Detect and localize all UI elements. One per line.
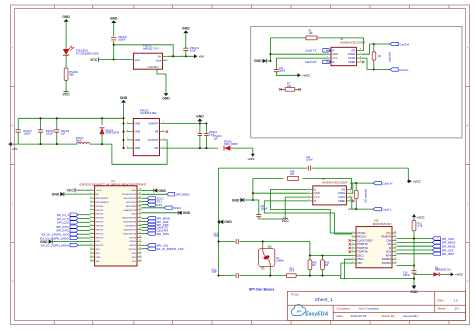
pins U2: [326, 49, 331, 51]
svg-text:GND: GND: [110, 16, 118, 20]
node: [217, 221, 219, 223]
ground flag U4 right: [142, 190, 154, 192]
svg-text:5: 5: [90, 204, 91, 206]
power VCC flag to regulator: [98, 57, 100, 61]
capacitor C16: [413, 266, 415, 271]
wire crystal bottom: [269, 266, 271, 275]
svg-text:RESET#: RESET#: [382, 236, 392, 239]
svg-text:1/1: 1/1: [455, 307, 460, 311]
svg-text:15: 15: [90, 244, 92, 246]
svg-text:11: 11: [394, 258, 396, 260]
power VCC flag: [283, 217, 288, 219]
power +VCC D3: [451, 272, 454, 276]
svg-text:GPIO25: GPIO25: [96, 222, 105, 224]
svg-text:+5V: +5V: [198, 55, 203, 59]
capacitor PSUC5: [56, 118, 58, 129]
svg-text:5: 5: [360, 60, 361, 62]
power +VCC R21: [413, 217, 415, 220]
ground PSU LED: [65, 22, 67, 24]
net flag EX_IO_25SPI1_CS0: [142, 248, 148, 250]
svg-text:4: 4: [90, 200, 91, 202]
net flag Can0 H: [390, 42, 398, 45]
svg-text:7: 7: [360, 53, 361, 55]
net flag Can0 L: [390, 68, 398, 71]
svg-text:4: 4: [308, 199, 309, 201]
net flag EX_IO_4: [70, 213, 78, 216]
svg-text:GPIO26: GPIO26: [96, 226, 105, 228]
wire U2 GND pin: [270, 53, 326, 55]
svg-text:3: 3: [90, 197, 91, 199]
svg-text:14: 14: [394, 246, 396, 248]
svg-text:1: 1: [308, 188, 309, 190]
svg-text:2: 2: [327, 53, 328, 55]
svg-text:17: 17: [394, 235, 396, 237]
svg-text:FB: FB: [155, 130, 159, 134]
net flag SPI_SCK: [397, 249, 433, 251]
svg-text:3: 3: [352, 239, 353, 241]
net flag TX1: [142, 200, 148, 202]
wire GND vertical: [269, 38, 271, 61]
title block frame: [287, 291, 465, 320]
svg-text:Drawn By:: Drawn By:: [382, 314, 396, 318]
svg-text:GND: GND: [120, 96, 128, 100]
net flag SPI_INT2: [70, 229, 78, 232]
easyeda logo: [291, 305, 306, 316]
wire vertical long: [218, 168, 220, 276]
ground flag CAN0: [263, 59, 267, 63]
wire VIN: [165, 147, 219, 149]
net flag SPI_CS1: [142, 244, 148, 246]
svg-text:13: 13: [394, 250, 396, 252]
svg-text:MBR0520LT1G: MBR0520LT1G: [435, 270, 451, 272]
pins U7: [308, 188, 313, 190]
svg-text:TXCAN: TXCAN: [357, 232, 366, 235]
svg-text:VSS: VSS: [357, 262, 362, 265]
capacitor C13 inline: [219, 275, 236, 277]
subcircuit box CAN0: [251, 26, 462, 137]
resistor R2 termination: [373, 44, 375, 52]
svg-text:8: 8: [163, 122, 164, 124]
wire GND rail: [18, 117, 123, 119]
wire VSS down: [341, 263, 352, 276]
svg-text:GND: GND: [131, 190, 136, 192]
capacitor PSUC6: [40, 118, 42, 129]
ground PSUC1: [185, 33, 187, 35]
svg-text:B: B: [467, 124, 469, 128]
wire U7 GND pin: [253, 192, 308, 194]
svg-text:+VCC: +VCC: [302, 74, 311, 78]
pins U4: [90, 189, 95, 191]
node: [252, 192, 254, 194]
svg-text:GPIO0: GPIO0: [129, 241, 136, 243]
ground XL1509 pins: [123, 103, 125, 105]
wire OUTPUT loop: [112, 140, 167, 164]
wire OSC2 line: [310, 255, 352, 257]
capacitor PSUC7: [17, 118, 19, 129]
power +5V arrow: [194, 54, 197, 58]
svg-text:RXD/GPIO16: RXD/GPIO16: [123, 233, 137, 235]
inductor PSUL1: [77, 142, 90, 144]
svg-text:1: 1: [352, 231, 353, 233]
svg-text:25: 25: [139, 240, 141, 242]
svg-text:SCL/GPIO22: SCL/GPIO22: [124, 198, 137, 200]
svg-text:TXD/GPIO17: TXD/GPIO17: [123, 229, 136, 231]
svg-text:GPIO34: GPIO34: [96, 206, 105, 208]
diode PSUD1: [224, 146, 230, 151]
net flag SPI_CS2: [70, 221, 78, 224]
svg-text:5: 5: [350, 199, 351, 201]
svg-text:+12V: +12V: [247, 157, 254, 161]
svg-text:OUTPUT: OUTPUT: [148, 138, 159, 142]
svg-text:GND: GND: [314, 191, 320, 195]
resistor R18: [253, 178, 284, 180]
svg-text:3: 3: [127, 122, 128, 124]
diode D3 MBR0520: [414, 273, 433, 275]
svg-text:GND: GND: [96, 241, 101, 243]
pin stubs U1: [128, 59, 133, 61]
ground flag U4 right: [142, 212, 178, 214]
svg-text:TITLE:: TITLE:: [290, 292, 299, 296]
svg-text:21: 21: [139, 255, 141, 257]
svg-text:D: D: [467, 280, 469, 284]
svg-text:35: 35: [139, 200, 141, 202]
capacitor C12: [276, 58, 326, 69]
svg-text:22pF: 22pF: [214, 235, 220, 238]
svg-text:GND: GND: [162, 97, 170, 101]
svg-text:CANL: CANL: [348, 56, 356, 60]
node: [407, 180, 409, 182]
svg-text:31: 31: [139, 216, 141, 218]
svg-text:GPIO32: GPIO32: [96, 214, 105, 216]
svg-text:29: 29: [139, 224, 141, 226]
svg-text:CMD: CMD: [96, 257, 101, 259]
node: [113, 44, 115, 46]
svg-text:GND: GND: [332, 52, 338, 56]
svg-text:6: 6: [90, 208, 91, 210]
svg-text:MCP2515-ISO: MCP2515-ISO: [373, 222, 393, 226]
resistor R21: [412, 221, 416, 231]
svg-text:16MHz: 16MHz: [276, 260, 284, 263]
capacitor PSUC4: [199, 123, 201, 133]
svg-text:7: 7: [350, 192, 351, 194]
svg-text:AMS1117-5.0: AMS1117-5.0: [143, 46, 159, 50]
svg-text:1: 1: [163, 146, 164, 148]
svg-text:7: 7: [90, 212, 91, 214]
svg-text:EX_IO_25SPI1_CS0: EX_IO_25SPI1_CS0: [157, 247, 184, 251]
svg-text:13: 13: [90, 236, 92, 238]
svg-text:Can0 RX: Can0 RX: [305, 60, 317, 64]
svg-text:ON/OFF: ON/OFF: [148, 121, 158, 125]
net flag SCL1: [142, 197, 148, 199]
regulator PSUU1 AMS1117-5.0: [133, 53, 162, 69]
node: [413, 278, 415, 280]
svg-text:2: 2: [352, 235, 353, 237]
transceiver U2 SN65HVD230DR: [331, 47, 356, 65]
svg-text:7: 7: [352, 254, 353, 256]
wire RX1BF to C16: [397, 265, 415, 267]
svg-text:GND: GND: [135, 138, 141, 142]
svg-text:10: 10: [394, 261, 396, 263]
wire CANH up: [361, 44, 369, 54]
svg-text:SCK: SCK: [386, 251, 391, 254]
net flag EX_IO_2/SPI1_MOSI: [70, 243, 78, 246]
svg-text:D: D: [332, 48, 334, 52]
net flag SPI_INT0: [397, 253, 433, 255]
wire VCC pin: [285, 197, 308, 218]
net flag EX_IO_14SPI1_SCK: [70, 233, 78, 236]
power +VCC flag: [298, 73, 301, 77]
resistor R1: [270, 37, 305, 39]
svg-text:61.9: 61.9: [290, 271, 295, 273]
svg-text:SPI_INT0: SPI_INT0: [442, 252, 455, 256]
svg-text:FC-2012HRK-620D: FC-2012HRK-620D: [76, 51, 99, 55]
svg-text:15: 15: [394, 243, 396, 245]
no-connect TX1RTS: [349, 247, 352, 250]
svg-text:Vin: Vin: [157, 54, 161, 58]
node: [309, 254, 311, 256]
svg-text:6: 6: [127, 146, 128, 148]
no-connect TX2RTS: [349, 250, 352, 253]
wire ON/OFF to GND: [165, 122, 207, 124]
svg-text:(120 optional): (120 optional): [365, 189, 368, 203]
net flag Can2 L: [373, 207, 381, 210]
net flag RX1: [142, 204, 148, 206]
transceiver U7 SN65HVD230DR: [313, 186, 347, 205]
wire: [65, 80, 67, 91]
svg-text:GPIO36/SVP: GPIO36/SVP: [96, 198, 109, 200]
svg-text:16: 16: [394, 239, 396, 241]
net flag SPI_SCK: [142, 221, 148, 223]
svg-text:TX0RTS#: TX0RTS#: [357, 243, 368, 246]
node: [185, 55, 187, 57]
svg-text:OSC1: OSC1: [357, 258, 364, 261]
svg-text:Sheet_1: Sheet_1: [315, 297, 333, 303]
svg-text:Date:: Date:: [337, 314, 344, 318]
svg-text:OSC2: OSC2: [357, 254, 364, 257]
svg-text:1uF: 1uF: [214, 138, 219, 141]
power +VCC flag: [408, 179, 411, 183]
svg-text:17: 17: [90, 252, 92, 254]
crystal X2 16MHz: [259, 249, 275, 267]
svg-text:8: 8: [350, 188, 351, 190]
svg-text:2021-05-06: 2021-05-06: [351, 314, 367, 318]
wire +5V rail: [8, 143, 77, 145]
svg-text:9: 9: [352, 261, 353, 263]
resistor R22: [287, 274, 297, 278]
svg-text:REV:: REV:: [438, 298, 445, 302]
no-connect VREF: [362, 61, 365, 64]
svg-text:GND: GND: [224, 220, 232, 224]
svg-text:SN65HVD230DR: SN65HVD230DR: [322, 180, 348, 184]
svg-text:1: 1: [90, 189, 91, 191]
svg-text:10: 10: [90, 224, 92, 226]
svg-text:10K: 10K: [309, 32, 314, 35]
svg-text:22: 22: [139, 252, 141, 254]
wire GND branch: [252, 179, 254, 201]
svg-text:ESP32D DEVKITC V4 38PINS NEW F: ESP32D DEVKITC V4 38PINS NEW FOOTPRINT: [79, 182, 146, 186]
svg-text:GND: GND: [254, 59, 262, 63]
svg-text:SDA1: SDA1: [173, 206, 181, 210]
capacitor C8: [253, 200, 259, 214]
svg-text:18: 18: [394, 231, 396, 233]
svg-text:Vout: Vout: [156, 58, 162, 62]
svg-text:SI: SI: [389, 247, 392, 250]
svg-text:EX_IO_2/SPI1_MOSI: EX_IO_2/SPI1_MOSI: [41, 243, 69, 247]
svg-text:GPIO13: GPIO13: [96, 245, 105, 247]
ground MCP: [412, 286, 417, 290]
wire CANL down: [351, 197, 356, 209]
wire OSC1 down: [344, 259, 352, 278]
svg-text:8: 8: [352, 258, 353, 260]
capacitor PSUC2: [113, 25, 115, 36]
wire Can2L: [348, 208, 373, 210]
ground PSUC2: [113, 23, 115, 25]
capacitor PSUC1: [185, 35, 187, 48]
svg-text:19: 19: [90, 259, 92, 261]
svg-text:RX1BF#: RX1BF#: [382, 262, 392, 265]
svg-text:TX2RTS#: TX2RTS#: [357, 251, 368, 254]
wire CANH up: [351, 183, 356, 193]
svg-text:GPIO33: GPIO33: [96, 218, 105, 220]
svg-text:2: 2: [163, 138, 164, 140]
no-connect TX0RTS: [349, 243, 352, 246]
svg-text:GND: GND: [183, 211, 191, 215]
svg-text:26: 26: [139, 236, 141, 238]
svg-text:+VCC: +VCC: [455, 273, 464, 277]
svg-text:100nF: 100nF: [403, 274, 410, 277]
svg-text:2: 2: [308, 192, 309, 194]
svg-text:C: C: [12, 202, 14, 206]
svg-text:VCC: VCC: [63, 92, 71, 96]
svg-text:24: 24: [139, 244, 141, 246]
svg-text:B: B: [12, 124, 14, 128]
node: [269, 53, 271, 55]
svg-text:+VCC: +VCC: [413, 180, 422, 184]
svg-text:GPIO4: GPIO4: [129, 237, 136, 239]
border ticks and row letters: [53, 5, 55, 9]
svg-text:SS54_C8678: SS54_C8678: [106, 133, 120, 135]
svg-text:R: R: [332, 60, 334, 64]
svg-text:RS: RS: [351, 48, 355, 52]
svg-text:6: 6: [360, 56, 361, 58]
node: [199, 147, 201, 149]
svg-text:CS#: CS#: [386, 239, 391, 242]
svg-text:27: 27: [139, 232, 141, 234]
svg-text:4: 4: [352, 243, 353, 245]
svg-text:+5V: +5V: [12, 147, 17, 151]
svg-text:XL1509-5.0E1: XL1509-5.0E1: [140, 111, 157, 115]
net flag SPI_INT0: [142, 233, 148, 235]
svg-text:MISO/GPIO19: MISO/GPIO19: [122, 218, 137, 220]
svg-text:Can2 H: Can2 H: [383, 181, 393, 185]
svg-text:4.7K: 4.7K: [418, 225, 423, 228]
net flag SPI_MOSI: [397, 245, 433, 247]
power +12V flag: [252, 148, 254, 154]
svg-text:36: 36: [139, 197, 141, 199]
svg-text:Company:: Company:: [337, 307, 351, 311]
svg-text:GND: GND: [232, 198, 240, 202]
svg-text:RS: RS: [341, 187, 345, 191]
svg-text:6: 6: [350, 195, 351, 197]
svg-text:RXCAN: RXCAN: [357, 236, 366, 239]
svg-text:23: 23: [139, 248, 141, 250]
svg-text:A: A: [467, 46, 469, 50]
svg-text:SPI_MISO: SPI_MISO: [176, 193, 190, 197]
power +5V arrow: [8, 142, 11, 146]
net flag SDA1: [142, 207, 165, 209]
svg-text:MOSI/GPIO23: MOSI/GPIO23: [122, 194, 137, 196]
svg-text:GND: GND: [158, 189, 166, 193]
svg-text:D: D: [12, 280, 14, 284]
svg-text:R: R: [314, 199, 316, 203]
svg-text:10K: 10K: [290, 173, 295, 176]
svg-text:GPIO14: GPIO14: [96, 233, 105, 235]
svg-text:3: 3: [327, 56, 328, 58]
svg-text:3: 3: [308, 195, 309, 197]
wire to +VCC: [407, 168, 409, 181]
wire Vin to +5V: [168, 55, 195, 57]
net flag SPI_MISO: [397, 241, 433, 243]
wire: [65, 24, 67, 49]
resistor R7: [281, 88, 285, 90]
node rail joints: [39, 117, 41, 119]
resistor PSUR1: [64, 68, 68, 80]
svg-text:33: 33: [139, 208, 141, 210]
svg-text:rstevens81: rstevens81: [403, 314, 418, 318]
diode PSUD2: [101, 118, 103, 125]
svg-text:100uF: 100uF: [46, 133, 54, 136]
net flag SPI_MOSI: [142, 217, 148, 219]
svg-text:SO: SO: [387, 243, 391, 246]
svg-text:CLKOUT/SOF: CLKOUT/SOF: [357, 239, 373, 242]
net flag Can2 H: [373, 181, 381, 184]
svg-text:GND: GND: [135, 121, 141, 125]
svg-text:GND: GND: [135, 146, 141, 150]
svg-text:1uF: 1uF: [61, 133, 66, 136]
svg-text:+5V/in: +5V/in: [96, 190, 103, 192]
svg-text:SCK/GPIO18: SCK/GPIO18: [123, 222, 137, 224]
svg-text:VREF: VREF: [348, 60, 356, 64]
svg-text:SDA/GPIO21: SDA/GPIO21: [123, 209, 137, 212]
wire: [65, 55, 67, 68]
svg-text:GND: GND: [182, 27, 190, 31]
net flag Can0 RX: [142, 229, 148, 231]
svg-text:100nF: 100nF: [279, 69, 286, 72]
svg-text:100uF: 100uF: [24, 133, 32, 136]
svg-text:SN65HVD230DR: SN65HVD230DR: [340, 41, 366, 45]
svg-text:22pF: 22pF: [212, 271, 218, 274]
svg-text:CLK: CLK: [132, 261, 137, 263]
svg-text:34: 34: [139, 204, 141, 206]
mcu U4 ESP32 module: [95, 186, 137, 266]
wire CANL down: [361, 58, 367, 69]
svg-text:GPIO3/RX: GPIO3/RX: [126, 206, 137, 208]
wire crystal top: [262, 242, 264, 249]
ground regulator: [165, 91, 167, 93]
wire FB stub: [166, 130, 169, 133]
svg-text:20: 20: [139, 259, 141, 261]
net flag SPI_INT1: [70, 225, 78, 228]
svg-text:GPIO2: GPIO2: [129, 245, 136, 247]
svg-text:Can0 TX: Can0 TX: [305, 49, 316, 53]
svg-text:GND/ADJ: GND/ADJ: [148, 66, 160, 69]
svg-text:VCC: VCC: [332, 56, 338, 60]
svg-text:12: 12: [394, 254, 396, 256]
node: [373, 43, 375, 45]
svg-text:GND: GND: [196, 115, 204, 119]
svg-text:Can2 L: Can2 L: [383, 207, 393, 211]
svg-text:RX1: RX1: [157, 203, 163, 207]
